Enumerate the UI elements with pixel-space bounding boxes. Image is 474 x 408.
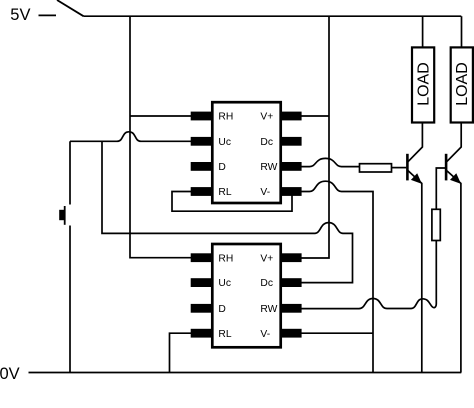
IC U1 body [212,102,280,203]
pin U1 V- [281,187,302,196]
transistor Q2 base bar [445,154,448,181]
resistor R2 [432,209,440,240]
svg-text:V+: V+ [260,253,273,264]
resistor R1 [360,164,392,172]
svg-text:D: D [218,162,225,173]
svg-text:LOAD: LOAD [454,62,471,106]
pin U2 V+ [281,253,302,262]
IC U2 body [212,244,280,347]
wire LOAD1 top [422,16,424,47]
wire R2 to Q2 base [436,168,445,209]
svg-text:Uc: Uc [218,278,231,289]
pin U2 Dc [281,278,302,287]
svg-text:V+: V+ [260,112,273,123]
svg-text:RH: RH [218,112,233,123]
wire 5V rail [84,15,462,17]
pin U1 Dc [281,137,302,146]
transistor Q1 base bar [406,154,409,181]
pin U1 D [191,162,212,171]
wire U2 V- to 0V [302,332,374,334]
pin U2 Uc [191,278,212,287]
wire U1 RL to U1 V- loop [172,192,292,212]
pin U1 RW [281,162,302,171]
svg-text:V-: V- [260,187,270,198]
wire U1 Uc node to U2 Dc with hop [102,141,353,282]
pushbutton S1 contact bar [64,206,66,225]
wire U1 RH to 5V branch [130,115,192,117]
svg-text:RL: RL [218,187,231,198]
wire R1 to Q1 base [392,167,407,169]
svg-text:5V: 5V [10,6,30,24]
transistor Q2 emitter [447,171,461,373]
wire 5V branch to U2 RH [130,16,191,258]
wire U1 Uc with hop [70,132,192,142]
transistor Q1 collector [408,123,422,162]
wire 0V rail [29,372,462,374]
svg-text:0V: 0V [0,365,20,383]
pin U2 RW [281,304,302,313]
load LOAD1 box [412,47,434,122]
svg-text:RL: RL [218,329,231,340]
svg-text:RH: RH [218,253,233,264]
wire U2 RL to 0V [170,333,192,372]
pin U2 V- [281,329,302,338]
svg-text:Dc: Dc [260,278,273,289]
pushbutton S1 cap [59,210,64,220]
svg-text:LOAD: LOAD [415,62,432,106]
svg-text:Uc: Uc [218,137,231,148]
wire button lower [69,226,71,373]
transistor Q1 emitter arrow [411,173,422,184]
pin U1 RL [191,187,212,196]
svg-text:RW: RW [260,304,277,315]
svg-text:RW: RW [260,162,277,173]
load LOAD2 box [451,47,473,122]
pin U2 RH [191,253,212,262]
svg-text:V-: V- [260,329,270,340]
wire button upper [69,141,71,204]
wire U1 V+ [302,115,330,117]
transistor Q1 emitter [408,171,422,373]
switch SW1 blade [57,0,84,16]
wire 5V lead [39,14,57,16]
pin U2 RL [191,329,212,338]
pin U1 V+ [281,112,302,121]
wire LOAD2 top [461,16,463,47]
svg-text:Dc: Dc [260,137,273,148]
wire U2 RW to R2 with hops [302,241,437,309]
transistor Q2 collector [447,123,462,162]
svg-text:D: D [218,304,225,315]
pin U1 Uc [191,137,212,146]
wire U1 RW to R1 with hop [302,158,360,166]
wire 5V branch to U2 V+ [302,16,330,258]
transistor Q2 emitter arrow [450,173,461,184]
pin U2 D [191,304,212,313]
pin U1 RH [191,112,212,121]
wire U1 V- to 0V with hop [302,181,374,372]
